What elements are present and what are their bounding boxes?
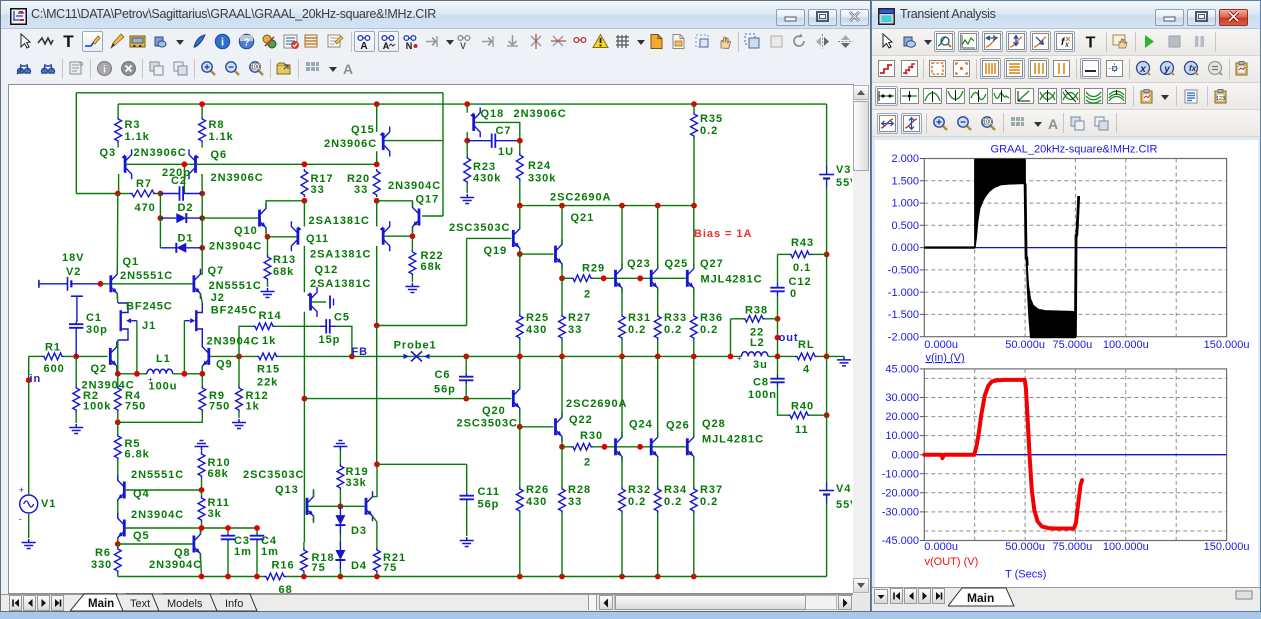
resistor R25 [516,314,523,340]
resistor R23 [464,156,471,184]
resistor R20 [373,169,380,197]
wire Q18 base loop [475,122,520,140]
wire emitter down [621,457,623,488]
wire C11 top [377,463,467,465]
capacitor C12 [777,283,779,288]
svg-text:R26: R26 [526,484,549,496]
svg-text:RL: RL [798,339,815,351]
wire [75,412,77,423]
wire [657,513,659,577]
wire collector up [693,206,695,269]
ground R22 [405,283,419,293]
svg-text:T (Secs): T (Secs) [1005,569,1046,581]
wire [561,513,563,577]
wire emitter down [621,288,623,314]
svg-text:-: - [764,347,767,356]
wire V4 bottom [826,503,828,577]
svg-text:50.000u: 50.000u [1005,541,1045,553]
svg-text:J2: J2 [211,292,225,304]
svg-text:Q10: Q10 [234,225,258,237]
svg-text:V4: V4 [836,483,851,495]
wire [693,104,695,112]
wire Q20 collector [519,356,521,389]
wire [117,544,119,547]
junction R20 bot [374,198,380,204]
svg-text:123: 123 [1216,96,1225,102]
svg-text:i: i [221,37,224,49]
svg-text:33k: 33k [346,477,367,489]
source V1 [20,495,38,513]
junction bias [517,203,523,209]
wire J2 drain [198,303,203,313]
trace v(in) [924,246,974,248]
junction in [26,377,32,383]
wire [303,573,305,577]
svg-text:R24: R24 [528,160,551,172]
junction D1 right [199,245,205,251]
svg-text:330: 330 [91,559,112,571]
svg-text:2N3904C: 2N3904C [207,336,260,348]
wire V3 top [826,104,828,166]
junction R6 top [115,541,121,547]
junction mid [619,354,625,360]
junction rail [655,574,661,580]
wire R18 top [303,542,305,548]
svg-text:R14: R14 [259,310,282,322]
resistor R29 [571,275,593,282]
svg-text:Text: Text [130,598,150,610]
svg-text:0.2: 0.2 [700,125,718,137]
svg-text:R35: R35 [700,113,723,125]
wire [201,450,203,452]
svg-text:2N3904C: 2N3904C [209,241,262,253]
wire V3 bottom [826,187,828,254]
svg-text:0.500: 0.500 [891,220,919,232]
svg-text:-1.000: -1.000 [888,287,919,299]
svg-text:R31: R31 [628,312,651,324]
svg-text:55V: 55V [836,177,852,189]
wire [562,277,571,279]
junction mid [775,354,781,360]
capacitor (Q12 base) [329,296,331,309]
wire C4 bottom [256,541,258,577]
wire emitter down [657,457,659,488]
ground V1 [22,539,36,549]
resistor R1 [42,353,64,360]
junction C7 right [517,138,523,144]
wire [466,501,468,536]
wire R9 bottom loop [118,412,203,422]
transistor Q28 [686,438,689,455]
resistor R4 [114,386,121,412]
svg-text:15p: 15p [319,334,341,346]
svg-text:0.000: 0.000 [891,242,919,254]
svg-text:1U: 1U [498,146,514,158]
svg-text:2SA1381C: 2SA1381C [309,215,370,227]
svg-text:100n: 100n [748,389,777,401]
junction Q19 e [517,251,523,257]
junction R20 top [374,161,380,167]
transistor Q20 [512,390,515,407]
wire R12 top [238,356,240,386]
resistor R21 [374,548,381,573]
svg-text:Q15: Q15 [351,124,375,136]
svg-text:Q19: Q19 [484,245,508,257]
wire C6 top [465,356,467,373]
wire collector up [657,356,659,437]
svg-text:Bias = 1A: Bias = 1A [694,228,752,240]
wire R28 top [561,447,563,487]
svg-text:0: 0 [790,288,797,300]
ground C11 [460,537,474,547]
wire [267,281,269,287]
transistor Q19 [512,230,515,247]
svg-text:-10.000: -10.000 [882,468,919,480]
resistor R33 [654,314,661,340]
svg-text:75.000u: 75.000u [1053,541,1093,553]
diode D1 [160,247,176,249]
junction rail [374,574,380,580]
resistor R35 [691,112,698,138]
wire [731,318,744,320]
wire [117,412,119,422]
junction rail [301,574,307,580]
resistor R31 [619,314,626,340]
wire Q6 collector drop [201,174,203,194]
transistor Q25 [650,270,653,287]
svg-text:C8: C8 [753,377,769,389]
resistor R36 [690,314,697,340]
transistor Q4 [123,482,126,499]
wire [201,522,203,528]
svg-text:T: T [1086,35,1096,51]
svg-text:3k: 3k [208,508,222,520]
wire bottom rail left [118,576,264,578]
transistor Q18 [472,114,475,131]
wire R35 to rail [693,138,695,206]
junction L1 node [134,371,140,377]
svg-text:3u: 3u [753,359,768,371]
probe Probe1 [411,351,422,361]
wire [765,318,778,320]
svg-text:4: 4 [803,364,810,376]
wire R26 top [519,427,521,487]
wire C1 bottom [75,330,77,356]
svg-text:R27: R27 [568,312,591,324]
wire C3 top [227,528,229,534]
svg-text:Q25: Q25 [665,258,689,270]
wire Q1 emitter [116,294,119,304]
svg-text:33: 33 [568,496,582,508]
svg-text:2SC2690A: 2SC2690A [566,398,627,410]
svg-text:R15: R15 [257,364,280,376]
resistor R28 [559,487,566,513]
junction b2 [637,275,643,281]
svg-text:100.000u: 100.000u [1103,339,1149,351]
transistor Q26 [650,438,653,455]
wire bias rail [520,205,694,207]
wire gnd stub [827,355,844,357]
junction R43 right [824,252,830,258]
svg-text:430k: 430k [473,173,501,185]
junction C4 t [254,525,260,531]
wire R5 top [117,422,119,434]
wire R22 top [411,236,413,250]
ground R10 [195,441,209,451]
svg-text:R28: R28 [568,484,591,496]
svg-text:2SC2690A: 2SC2690A [550,192,611,204]
wire Q10-Q11 [268,236,297,238]
wire [339,569,341,577]
transistor Q7 [192,275,195,292]
svg-text:Q6: Q6 [211,149,228,161]
junction R17 top [302,161,308,167]
svg-text:2N3906C: 2N3906C [134,147,187,159]
svg-text:1k: 1k [246,401,260,413]
svg-text:D1: D1 [178,233,194,245]
wire D ladder right / Q7 collector [201,194,203,275]
wire Q14 emitter [373,516,377,548]
wire [778,253,790,255]
wire Q21 collector [561,206,563,245]
svg-text:11: 11 [795,424,809,436]
wire R24 top [519,141,521,153]
wire y325 [377,325,467,327]
junction C2 right [199,191,205,197]
svg-text:0.000u: 0.000u [924,541,958,553]
wire Q19e-Q21b [520,253,554,255]
svg-text:R40: R40 [791,401,814,413]
resistor R17 [301,169,308,197]
svg-text:GRAAL_20kHz-square&!MHz.CIR: GRAAL_20kHz-square&!MHz.CIR [991,144,1158,156]
svg-text:750: 750 [125,401,146,413]
wire [201,490,203,496]
junction R10/R11 [199,487,205,493]
svg-text:x: x [1139,64,1146,75]
wire [64,355,108,357]
svg-text:470: 470 [135,202,156,214]
wire C8 top [777,356,779,375]
wire J1 source [118,329,128,340]
wire J2 source [198,329,203,348]
wire [466,464,468,494]
resistor R12 [236,386,243,412]
svg-text:A: A [343,61,353,77]
svg-text:430: 430 [526,324,547,336]
svg-text:75.000u: 75.000u [1053,339,1093,351]
svg-text:2N3906C: 2N3906C [324,138,377,150]
svg-text:0.2: 0.2 [628,324,646,336]
wire collector up [621,206,623,269]
transistor Q2 [109,348,112,365]
junction mid [559,354,565,360]
junction Q17e [410,233,416,239]
junction rail [691,574,697,580]
svg-text:C2: C2 [171,175,187,187]
svg-text:Q3: Q3 [100,147,117,159]
ground R2 [69,424,83,434]
capacitor C2 [160,193,179,195]
wire L1 left [118,373,147,375]
junction L1 node [199,371,205,377]
wire Q19 collector [519,206,521,229]
wire Q8 collector [200,528,201,534]
resistor R26 [516,487,523,513]
svg-text:A: A [1048,116,1058,132]
svg-text:R8: R8 [209,119,225,131]
wire Q8 emitter [200,554,201,577]
svg-text:R6: R6 [95,547,111,559]
wire Q17 base [422,215,443,217]
transistor Q8 [192,536,195,553]
svg-text:MJL4281C: MJL4281C [702,434,764,446]
wire R23 top [466,141,468,156]
wire C3 bottom [227,541,229,577]
svg-text:68k: 68k [421,261,442,273]
svg-text:C12: C12 [789,276,812,288]
svg-text:100u: 100u [149,381,178,393]
svg-text:1m: 1m [261,546,279,558]
wire Q8 base [118,543,193,545]
wire R8 top lead [201,104,203,117]
wire Q15 emitter up [376,104,378,132]
wire Q16 emitter up [376,201,378,227]
wire Q20 emitter [519,408,521,427]
svg-text:BF245C: BF245C [211,305,258,317]
junction rail [225,574,231,580]
junction D2 right [199,215,205,221]
wire FB lower [304,398,511,400]
wire [466,184,468,193]
wire [275,325,320,327]
wire emitter down [693,288,695,314]
resistor R43 [789,251,811,258]
wire Q16 collector down x377 [376,246,378,326]
wire R38 drop [730,319,732,357]
wire Q18 collector [466,132,468,141]
wire Q9 emitter [201,366,203,374]
wire Q1/Q7 base [101,283,193,285]
svg-text:18V: 18V [62,252,84,264]
junction rail [517,574,523,580]
transistor Q9 [207,348,210,365]
trace v(OUT) [924,380,1082,529]
svg-text:56p: 56p [478,499,500,511]
junction L1 node [182,371,188,377]
wire Q16 base to Q17 emitter [385,235,413,237]
svg-text:30p: 30p [86,324,108,336]
capacitor C7 [467,140,492,142]
junction mid [463,354,469,360]
svg-text:-2.000: -2.000 [888,331,919,343]
transistor Q12 [309,294,312,311]
wire [561,340,563,356]
svg-text:0.000: 0.000 [891,449,919,461]
svg-text:v(in) (V): v(in) (V) [926,352,965,364]
svg-text:33: 33 [568,324,582,336]
wire Q4e-Q5c [117,500,119,519]
wire Q11 emitter up [303,201,305,227]
wire Q10 collector [266,201,304,209]
wire [117,460,119,480]
wire [693,340,695,356]
wire right col [826,254,828,356]
wire C4 top [256,528,258,534]
wire mid 1 [210,355,257,357]
junction bias [559,203,565,209]
resistor R10 [198,452,205,478]
transistor Q21 [554,246,557,263]
svg-text:Q17: Q17 [416,194,440,206]
ground R12 [232,419,246,429]
junction rail [338,574,344,580]
svg-text:45.000: 45.000 [885,364,919,376]
wire L1 right [173,373,203,375]
svg-text:R32: R32 [628,484,651,496]
junction D3 top [338,503,344,509]
junction rail [559,574,565,580]
junction C1/R2 [73,354,79,360]
wire [117,573,119,577]
wire [810,414,827,416]
resistor R13 [264,255,271,281]
wire to Q10 base [202,217,258,219]
wire Q19 base drop [466,238,468,325]
svg-text:D3: D3 [351,525,367,537]
svg-text:-: - [19,514,22,524]
junction R11 bot [199,525,205,531]
svg-text:C5: C5 [334,312,350,324]
resistor R15 [257,353,279,360]
transistor Q14 [365,498,368,515]
wire J1 source down [117,340,119,374]
svg-text:-0.500: -0.500 [888,265,919,277]
svg-text:R3: R3 [125,119,141,131]
wire base rail to R17/R20 [197,163,377,165]
svg-text:2SC3503C: 2SC3503C [449,222,510,234]
resistor R11 [198,496,205,522]
junction R8 top [199,101,205,107]
junction x377 y325 [374,323,380,329]
svg-text:i: i [103,65,106,76]
svg-text:0.1: 0.1 [793,262,811,274]
wire x304 long [303,312,305,542]
junction rail [199,574,205,580]
resistor R40 [788,412,810,419]
junction mid [691,354,697,360]
wire Q12 base stub [312,301,327,303]
wire collector up [657,206,659,269]
svg-text:D4: D4 [351,560,367,572]
svg-text:1.1k: 1.1k [125,131,150,143]
wire [238,412,240,418]
svg-text:R29: R29 [582,263,605,275]
svg-text:V1: V1 [41,498,56,510]
svg-text:R7: R7 [136,178,152,190]
svg-text:0.2: 0.2 [700,324,718,336]
battery V3 [826,166,828,175]
battery V2 terminal tick [38,280,40,288]
wire R20bot to Q17 collector [377,201,413,208]
svg-text:2N5551C: 2N5551C [131,469,184,481]
wire [376,573,378,577]
wire mid 4 [817,355,827,357]
wire V2 to base [72,283,101,285]
wire Q3 collector drop [118,174,120,194]
transistor Q27 [686,270,689,287]
svg-text:100k: 100k [83,401,111,413]
svg-text:R37: R37 [700,484,723,496]
